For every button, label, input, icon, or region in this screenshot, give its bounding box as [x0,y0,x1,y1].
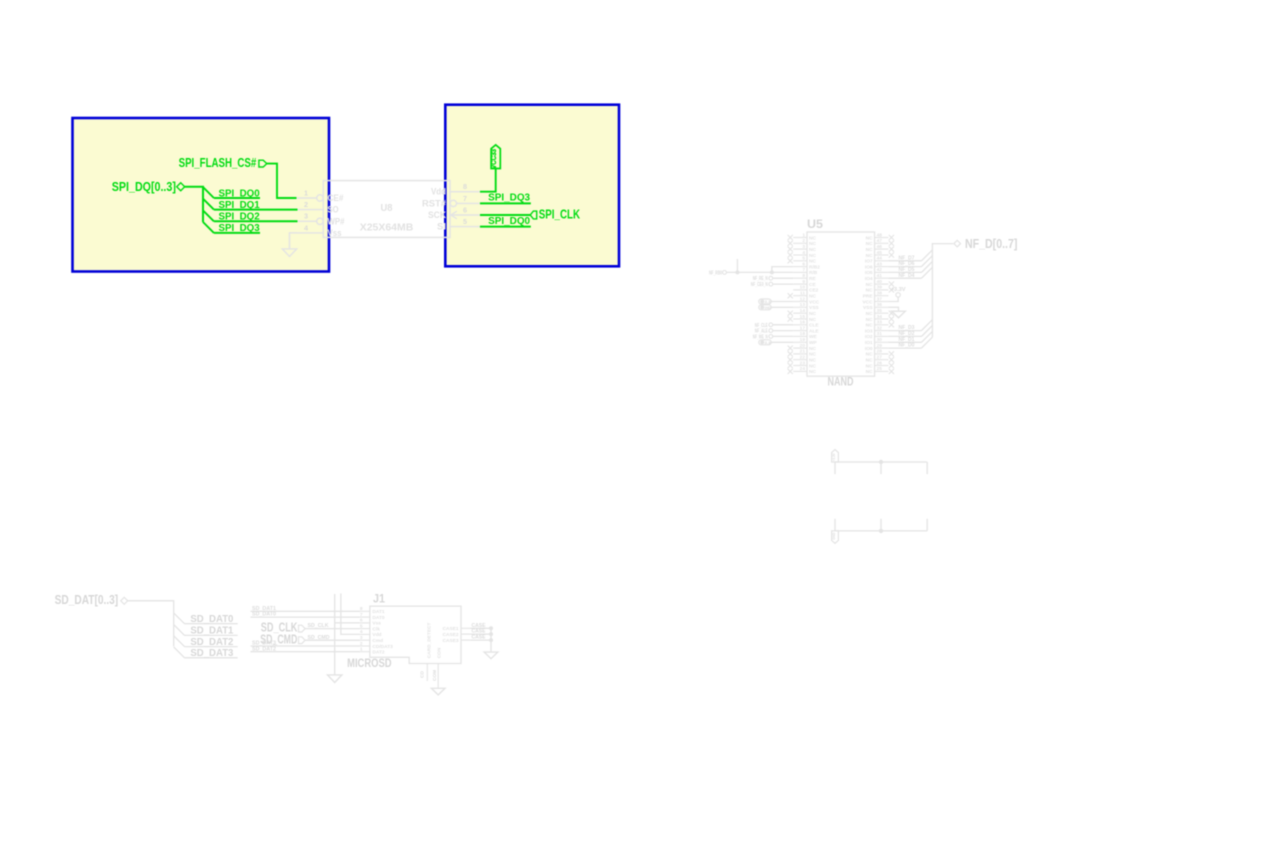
svg-text:NC: NC [866,282,873,288]
J1 pin CASE1 (stub, name, wire, junction) [443,623,493,632]
J1 pin 8 (DAT1) [360,606,385,615]
highlight box left (yellow selection around U8 left pins) [73,118,330,272]
U5 pin 38 (PRE) right [863,291,889,300]
U5 pin 12 (VCC) left [793,296,819,305]
U5 pin 20 (NC) left [788,343,817,352]
svg-text:ALE: ALE [809,328,819,334]
wire +3.3V rail [835,461,927,463]
U5 pin 24 (NC) left [788,366,817,375]
power label +3.3V at U5 WP pin 19 [759,340,793,345]
wire tie R/B to R/B2 pin 6 [772,267,793,273]
svg-text:SD_DAT2: SD_DAT2 [252,646,276,652]
svg-text:8: 8 [802,273,805,279]
junction on +3.3V rail [879,460,883,464]
J1 pin 4 (Vdd) [360,629,382,638]
microSD connector J1 body [370,606,461,663]
svg-text:NC: NC [866,288,873,294]
net label NF_CE0_N and wire to pin 9 [751,282,793,288]
U5 pin 32 (IO3) right [865,325,889,334]
capacitor stub C left top [834,462,836,474]
svg-text:NC: NC [809,253,816,259]
svg-text:SPI_DQ2: SPI_DQ2 [219,212,261,223]
wire Vdd pin 8 up to power label [480,169,496,192]
svg-text:NF_RB0: NF_RB0 [709,270,722,276]
bus wire SD_DAT [128,601,174,647]
net label NF_RB0 [709,270,726,276]
svg-text:CON: CON [436,647,442,658]
svg-text:37: 37 [877,296,883,302]
U5 pin 4 (NC) left [788,250,817,259]
svg-text:9: 9 [802,279,805,285]
svg-text:29: 29 [877,343,883,349]
svg-text:SO: SO [328,205,339,215]
svg-text:CD/DAT3: CD/DAT3 [372,644,393,650]
svg-text:11: 11 [800,291,805,297]
wire Vdd stub up from J1 pin 4 [341,593,360,634]
svg-text:14: 14 [800,308,806,314]
wire and net label SPI_DQ0 [214,188,260,199]
U5 pin 21 (NC) left [788,349,817,358]
U5 pin 45 (NC) right [866,250,894,259]
pin 5 SI of U8 [437,217,480,232]
svg-text:J1: J1 [373,593,386,605]
J1 pin 2 (CD/DAT3) [360,641,394,650]
svg-text:PRE: PRE [863,294,874,300]
hierarchical label SD_CMD [260,633,305,647]
svg-text:28: 28 [877,349,883,355]
J1 pin 6 (Vss) [360,618,382,627]
U5 pin 9 (CE) left [793,279,816,288]
junction on GND rail [879,529,883,533]
wire and net label SPI_DQ2 to pin 3 [214,212,298,223]
svg-text:4: 4 [802,250,805,256]
svg-text:CASE: CASE [472,635,486,641]
bus entry to SPI_DQ3 [203,222,214,233]
net label NF_RE_N and wire to pin 8 [753,276,793,282]
pin 7 RST# of U8 (stub, number, bubble) [422,194,480,209]
svg-text:R/B: R/B [809,270,818,276]
svg-text:DAT1: DAT1 [372,609,385,615]
wire and net label SPI_DQ3 to pin 7 [480,193,531,204]
svg-text:WP#: WP# [328,216,345,226]
svg-text:7: 7 [463,194,467,203]
U5 pin 13 (VSS) left [793,302,819,311]
global power label +3.3V (vertical) [489,145,500,169]
svg-text:CASE1: CASE1 [443,626,459,632]
svg-text:NAND: NAND [828,374,854,388]
svg-text:35: 35 [877,308,883,314]
ground symbol at U5 right VSS [888,307,905,318]
svg-text:NC: NC [809,294,816,300]
svg-text:2: 2 [304,200,308,209]
U5 pin 41 (IO4) right [865,273,889,282]
svg-text:46: 46 [877,244,883,250]
svg-text:NC: NC [809,317,816,323]
svg-text:NC: NC [809,311,816,317]
bus label SD_DAT[0..3] [55,593,128,607]
pin 8 Vdd of U8 [431,182,480,197]
svg-text:CE: CE [809,282,816,288]
svg-text:RST#: RST# [422,198,446,208]
svg-text:SD_DAT3: SD_DAT3 [190,648,233,659]
U5 pin 3 (NC) left [788,244,817,253]
wire and net label SD_CMD to J1 pin 3 [305,635,360,641]
net label NF_ALE and wire to pin 17 [755,329,793,335]
J1 pin 7 (DAT0) [360,612,385,621]
svg-text:VCC: VCC [809,299,820,305]
svg-text:NC: NC [866,317,873,323]
svg-text:3.3: 3.3 [765,341,771,345]
svg-text:CARD_DETECT: CARD_DETECT [426,623,432,659]
svg-text:CD: CD [420,671,426,678]
svg-text:24: 24 [800,366,806,372]
wire stub up from NF_RB0 net [736,259,738,272]
svg-text:1: 1 [802,232,805,238]
svg-text:31: 31 [877,331,883,337]
bus wire NF_D trunk [932,244,953,338]
svg-text:17: 17 [800,325,806,331]
bus wire SPI_DQ[0..3] [185,187,203,222]
U5 pin 17 (ALE) left [793,325,819,334]
svg-text:Cmd: Cmd [372,638,383,644]
svg-text:SI: SI [437,222,446,232]
svg-text:12: 12 [800,296,806,302]
U5 pin 11 (NC) left [788,291,817,300]
U5 pin 44 (IO7) right [865,256,889,265]
ground symbol below J1 COM pin [431,688,445,695]
svg-text:GND: GND [765,306,771,310]
NAND chip U5 body [807,232,875,376]
ground symbol below U8 [282,249,296,257]
svg-text:NC: NC [809,363,816,369]
wire SPI_CLK to pin 6 [480,214,530,216]
svg-text:7: 7 [360,612,363,618]
U5 pin 15 (NC) left [788,314,817,323]
svg-text:NC: NC [866,352,873,358]
svg-text:SD_DAT0: SD_DAT0 [252,612,276,618]
svg-text:NC: NC [866,363,873,369]
svg-text:SD_DAT0: SD_DAT0 [190,614,233,625]
bus entry, wire and net label SD_DAT1 [174,625,238,637]
bus entry, wire and net label SD_DAT2 [174,636,238,648]
svg-text:3: 3 [802,244,805,250]
svg-text:NC: NC [809,352,816,358]
svg-text:SPI_DQ3: SPI_DQ3 [219,223,261,234]
svg-text:IO7: IO7 [865,259,873,265]
svg-text:8: 8 [360,606,363,612]
wire and net label NF_D5 to IO5 [888,262,932,274]
wire CASE net down to ground [490,628,492,652]
svg-text:5: 5 [463,217,467,226]
U5 pin 28 (NC) right [866,349,894,358]
U5 pin 14 (NC) left [788,308,817,317]
svg-text:33: 33 [877,320,883,326]
svg-text:SPI_DQ1: SPI_DQ1 [219,200,261,211]
U5 pin 19 (WP) left [793,337,817,346]
bus entry to SPI_DQ1 [203,199,214,210]
svg-text:38: 38 [877,291,883,297]
U5 pin 48 (NC) right [866,232,894,241]
power label GND at U5 VSS pin 13 [759,305,793,310]
svg-text:6: 6 [360,618,363,624]
svg-text:R/B2: R/B2 [809,264,820,270]
svg-text:NC: NC [809,369,816,375]
svg-text:WE: WE [809,334,818,340]
net label NF_WE_N and wire to pin 18 [753,334,793,340]
wire and net label SD_DAT3 to J1 pin 2 [251,641,360,647]
svg-text:SPI_DQ0: SPI_DQ0 [219,188,261,199]
wire NF_RB0 to pin 7 R/B [726,271,793,273]
wire and net label NF_D7 to IO7 [888,250,932,262]
J1 pin CASE2 (stub, name, wire, junction) [443,629,493,638]
svg-text:43: 43 [877,261,883,267]
svg-text:45: 45 [877,250,883,256]
svg-text:21: 21 [800,349,806,355]
wire and net label NF_D3 to IO3 [888,320,932,332]
U5 pin 30 (IO1) right [865,337,889,346]
svg-text:13: 13 [800,302,806,308]
J1 pin CARD_DETECT (vertical name and stub) [420,623,433,681]
svg-text:32: 32 [877,325,883,331]
wire and net label SD_DAT1 to J1 pin 8 [251,606,360,612]
U5 pin 42 (IO5) right [865,267,889,276]
svg-text:SPI_FLASH_CS#: SPI_FLASH_CS# [179,156,257,170]
wire and net label SD_DAT2 to J1 pin 1 [251,646,360,652]
highlight box right (yellow selection around U8 right pins) [445,105,619,267]
J1 pin 5 (Clk) [360,623,381,632]
svg-text:+3.3V: +3.3V [831,453,836,461]
svg-text:3: 3 [360,635,363,641]
svg-text:SD_DAT1: SD_DAT1 [190,626,233,637]
svg-text:5: 5 [802,256,805,262]
svg-text:SD_DAT[0..3]: SD_DAT[0..3] [55,593,119,607]
U5 pin 5 (NC) left [788,256,817,265]
U5 pin 31 (IO2) right [865,331,889,340]
svg-text:19: 19 [800,337,806,343]
svg-text:VSS: VSS [809,305,819,311]
net label NF_CLE and wire to pin 16 [755,323,793,329]
svg-text:NC: NC [809,241,816,247]
hierarchical label SPI_FLASH_CS# [179,156,267,170]
svg-text:NC: NC [866,247,873,253]
svg-text:SPI_DQ0: SPI_DQ0 [488,216,530,227]
wire and net label NF_D2 to IO2 [888,326,932,338]
U5 pin 25 (NC) right [866,366,894,375]
svg-text:NC: NC [866,241,873,247]
svg-text:25: 25 [877,366,883,372]
svg-text:VCC: VCC [862,299,873,305]
svg-text:23: 23 [800,360,806,366]
pin 6 SCK of U8 (stub, number, clock mark) [428,205,480,220]
bus label SPI_DQ[0..3] [112,180,185,194]
svg-text:CLE: CLE [809,323,819,329]
svg-text:42: 42 [877,267,883,273]
svg-text:CASE3: CASE3 [443,638,459,644]
J1 pin CASE3 (stub, name, wire, junction) [443,635,493,644]
svg-text:NC: NC [866,253,873,259]
svg-text:10: 10 [800,285,806,291]
svg-text:26: 26 [877,360,883,366]
U5 pin 34 (NC) right [866,314,894,323]
capacitor stub C right top [926,462,928,474]
svg-text:47: 47 [877,238,883,244]
bus entry to SPI_DQ2 [203,210,214,221]
junction R/B tie [770,270,774,274]
svg-text:Vdd: Vdd [372,632,381,638]
svg-text:16: 16 [800,320,806,326]
bus entry, wire and net label SD_DAT3 [174,647,238,659]
svg-text:NC: NC [866,235,873,241]
svg-text:4: 4 [304,223,308,232]
svg-text:6: 6 [802,261,805,267]
svg-text:IO2: IO2 [865,334,873,340]
U5 pin 35 (NC) right [866,308,894,317]
svg-text:4: 4 [360,629,363,635]
svg-text:VCC33: VCC33 [489,149,498,169]
svg-text:CE#: CE# [328,193,344,203]
wire GND rail [835,530,927,532]
svg-text:18: 18 [800,331,806,337]
svg-text:NC: NC [809,358,816,364]
svg-text:3.3: 3.3 [765,300,771,304]
flash chip U8 body [323,181,450,238]
svg-text:U8: U8 [381,203,393,214]
wire and net label NF_D4 to IO4 [888,267,932,279]
svg-text:IO1: IO1 [865,340,873,346]
pin 4 Vss of U8 [297,223,342,238]
svg-text:1: 1 [304,188,308,197]
svg-text:30: 30 [877,337,883,343]
U5 pin 33 (NC) right [866,320,894,329]
svg-text:39: 39 [877,285,883,291]
capacitor stub C left bottom [834,519,836,531]
svg-text:NC: NC [866,358,873,364]
U5 pin 23 (NC) left [788,360,817,369]
capacitor stub C right bottom [926,519,928,531]
svg-text:CASE2: CASE2 [443,632,459,638]
svg-text:22: 22 [800,355,806,361]
svg-text:NF_D[0..7]: NF_D[0..7] [965,236,1017,251]
U5 pin 46 (NC) right [866,244,894,253]
U5 pin 18 (WE) left [793,331,817,340]
U5 pin 7 (R/B) left [793,267,818,276]
U5 pin 26 (NC) right [866,360,894,369]
U5 pin 16 (CLE) left [793,320,819,329]
svg-text:IO6: IO6 [865,264,873,270]
J1 pin 3 (Cmd) [360,635,384,644]
svg-text:3: 3 [304,212,308,221]
svg-text:44: 44 [877,256,883,262]
J1 pin 1 (DAT2) [360,647,385,656]
svg-text:48: 48 [877,232,883,238]
power label +3.3V at U5 VCC pin 12 [759,299,793,304]
U5 pin 43 (IO6) right [865,261,889,270]
U5 pin 2 (NC) left [788,238,817,247]
svg-text:GND: GND [831,533,836,540]
svg-text:15: 15 [800,314,806,320]
svg-text:SCK: SCK [428,210,447,220]
U5 pin 37 (VCC) right [862,296,888,305]
U5 pin 39 (NC) right [866,285,894,294]
U5 pin 22 (NC) left [788,355,817,364]
svg-text:DAT0: DAT0 [372,615,385,621]
U5 pin 47 (NC) right [866,238,894,247]
wire Vss rail down to ground [334,594,336,675]
svg-text:5: 5 [360,623,363,629]
svg-text:NC: NC [809,247,816,253]
capacitor stub C mid bottom [880,519,882,531]
wire and net label NF_D0 to IO0 [888,337,932,349]
svg-text:COM: COM [432,670,438,681]
pin 3 WP# of U8 (stub, number, bubble) [297,212,345,227]
J1 pin COM (vertical name, stub) [432,647,442,688]
U5 pin 1 (NC) left [788,232,817,241]
svg-text:SD_CMD: SD_CMD [308,635,330,641]
hierarchical label SD_CLK [261,621,305,635]
svg-text:NC: NC [809,259,816,265]
wire SPI_FLASH_CS# to pin 1 [267,164,297,198]
svg-text:Vss: Vss [372,621,381,627]
svg-text:7: 7 [802,267,805,273]
ground symbol below J1 left [328,675,342,683]
svg-text:CE2: CE2 [809,288,819,294]
svg-text:U5: U5 [807,219,824,231]
svg-text:Clk: Clk [372,626,380,632]
svg-text:40: 40 [877,279,883,285]
pin 1 CE# of U8 (stub, number, bubble) [297,188,344,203]
svg-text:34: 34 [877,314,883,320]
svg-text:Vdd: Vdd [431,187,446,197]
svg-text:Vss: Vss [328,228,342,238]
wire and net label SD_CLK to J1 pin 5 [305,623,360,629]
wire Vss pin 4 to ground [290,233,297,249]
wire and net label SPI_DQ1 to pin 2 [214,200,298,211]
svg-text:2: 2 [360,641,363,647]
svg-text:2: 2 [802,238,805,244]
svg-text:IO4: IO4 [865,276,873,282]
svg-text:X25X64MB: X25X64MB [360,222,414,233]
bus label NF_D[0..7] [954,236,1018,251]
svg-text:NF_CE0_N: NF_CE0_N [751,282,768,288]
U5 pin 27 (NC) right [866,355,894,364]
wire and net label SD_DAT0 to J1 pin 7 [251,612,360,618]
U5 pin 8 (RE) left [793,273,816,282]
svg-text:WP: WP [809,340,818,346]
svg-text:NF_D0: NF_D0 [899,343,915,349]
svg-text:1: 1 [360,647,363,653]
wire and net label NF_D1 to IO1 [888,331,932,343]
svg-text:41: 41 [877,273,883,279]
svg-text:MICROSD: MICROSD [347,656,392,670]
svg-text:NC: NC [866,369,873,375]
svg-text:IO3: IO3 [865,328,873,334]
power label (vertical) on GND rail [831,531,838,543]
pin 2 SO of U8 [297,200,339,215]
U5 pin 40 (NC) right [866,279,894,288]
svg-text:IO0: IO0 [865,346,873,352]
svg-text:SPI_DQ[0..3]: SPI_DQ[0..3] [112,180,176,194]
wire and net label SPI_DQ3 [214,223,260,234]
svg-text:NC: NC [866,323,873,329]
svg-text:8: 8 [463,182,467,191]
junction on NF_RB0 net [735,270,739,274]
wire and net label SPI_DQ0 to pin 5 [480,216,531,227]
ground symbol right of J1 [484,652,498,659]
bus entry, wire and net label SD_DAT0 [174,613,238,625]
bus entry to SPI_DQ0 [203,187,214,198]
svg-text:SD_CLK: SD_CLK [308,623,329,629]
svg-text:NC: NC [809,235,816,241]
